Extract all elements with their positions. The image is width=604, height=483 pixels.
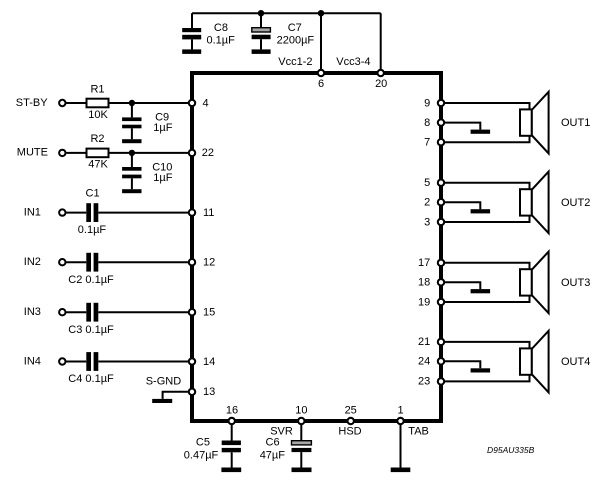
capacitor C5 0.47uF xyxy=(184,437,241,468)
pin 20 xyxy=(378,70,384,76)
wire pin 3 to speaker OUT2 xyxy=(441,216,530,222)
svg-text:4: 4 xyxy=(203,97,209,109)
ground C9 xyxy=(122,139,141,143)
svg-text:16: 16 xyxy=(226,405,238,417)
pin 2 xyxy=(438,199,444,205)
capacitor C7 2200uF xyxy=(252,13,315,49)
svg-text:Vcc3-4: Vcc3-4 xyxy=(336,56,370,68)
ground C8 xyxy=(182,49,201,54)
resistor R2 47K xyxy=(87,133,109,171)
svg-text:OUT1: OUT1 xyxy=(561,117,590,129)
wire C3 to pin 15 xyxy=(98,311,192,313)
wire pin 9 to speaker OUT1 xyxy=(441,103,530,109)
pin 15 xyxy=(189,309,195,315)
wire IN2 input xyxy=(66,261,87,263)
svg-text:C8: C8 xyxy=(214,22,228,34)
svg-text:IN4: IN4 xyxy=(24,355,41,367)
pin 4 xyxy=(189,100,195,106)
pin 13 xyxy=(189,389,195,395)
capacitor C9 1uF xyxy=(122,103,173,139)
capacitor C2 0.1uF xyxy=(68,253,114,286)
pin 22 xyxy=(189,150,195,156)
svg-text:TAB: TAB xyxy=(408,426,429,438)
ground S-GND xyxy=(152,399,172,403)
svg-text:ST-BY: ST-BY xyxy=(16,97,48,109)
wire pin 10 to C6 xyxy=(300,421,302,441)
svg-text:D95AU335B: D95AU335B xyxy=(487,445,535,455)
svg-text:0.47µF: 0.47µF xyxy=(184,450,219,462)
svg-text:47µF: 47µF xyxy=(260,450,286,462)
capacitor C6 47uF xyxy=(260,437,312,468)
svg-text:1: 1 xyxy=(397,405,403,417)
wire R1 to pin 4 xyxy=(109,102,193,104)
svg-text:C6: C6 xyxy=(266,437,280,449)
svg-text:IN3: IN3 xyxy=(24,306,41,318)
wire pin 20 branch xyxy=(380,13,382,73)
capacitor C10 1uF xyxy=(122,153,173,189)
pin 3 xyxy=(438,219,444,225)
ground C6 xyxy=(292,468,312,473)
terminal circle IN4 xyxy=(59,358,65,364)
pin 8 xyxy=(438,119,444,125)
terminal circle IN2 xyxy=(59,259,65,265)
pin 17 xyxy=(438,260,444,266)
wire R2 to pin 22 xyxy=(109,152,193,154)
pin 6 xyxy=(318,70,324,76)
wire pin 1 TAB to ground xyxy=(400,421,402,468)
svg-text:OUT2: OUT2 xyxy=(561,197,590,209)
svg-text:S-GND: S-GND xyxy=(146,375,182,387)
IC U1 body xyxy=(192,73,441,421)
svg-text:15: 15 xyxy=(203,307,215,319)
ground C10 xyxy=(122,189,141,193)
svg-text:10: 10 xyxy=(295,405,307,417)
svg-text:3: 3 xyxy=(424,216,430,228)
svg-text:12: 12 xyxy=(203,257,215,269)
node junction rail/C7 xyxy=(258,10,264,16)
svg-text:IN1: IN1 xyxy=(24,207,41,219)
wire pin 21 to speaker OUT4 xyxy=(441,342,530,349)
svg-text:18: 18 xyxy=(418,277,430,289)
svg-text:25: 25 xyxy=(345,405,357,417)
wire IN1 input xyxy=(66,212,87,214)
capacitor C3 0.1uF xyxy=(68,303,114,336)
svg-text:19: 19 xyxy=(418,296,430,308)
svg-text:OUT3: OUT3 xyxy=(561,277,590,289)
ground OUT4 xyxy=(471,368,491,372)
wire IN4 input xyxy=(66,361,87,363)
svg-text:6: 6 xyxy=(318,78,324,90)
svg-text:9: 9 xyxy=(424,97,430,109)
pin 7 xyxy=(438,139,444,145)
ground OUT1 xyxy=(471,130,491,134)
ground OUT3 xyxy=(471,289,491,293)
wire IN3 input xyxy=(66,311,87,313)
terminal circle IN1 xyxy=(59,209,65,215)
svg-text:24: 24 xyxy=(418,356,430,368)
pin 14 xyxy=(189,358,195,364)
svg-text:21: 21 xyxy=(418,336,430,348)
node junction R2/C10 xyxy=(129,150,135,156)
svg-text:14: 14 xyxy=(203,356,215,368)
svg-text:20: 20 xyxy=(375,78,387,90)
node junction R1/C9 xyxy=(129,100,135,106)
wire top supply rail xyxy=(192,12,381,14)
svg-text:23: 23 xyxy=(418,376,430,388)
ground C7 xyxy=(252,49,271,54)
capacitor C8 0.1uF xyxy=(182,13,235,49)
wire pin 5 to speaker OUT2 xyxy=(441,183,530,190)
svg-text:C7: C7 xyxy=(288,22,302,34)
svg-text:17: 17 xyxy=(418,257,430,269)
node junction rail/pin6 xyxy=(318,10,324,16)
speaker OUT3 xyxy=(520,252,590,314)
wire pin 19 to speaker OUT3 xyxy=(441,296,530,302)
wire pin 23 to speaker OUT4 xyxy=(441,375,530,382)
wire pin 18 to ground xyxy=(441,282,480,289)
svg-text:C2 0.1µF: C2 0.1µF xyxy=(68,274,114,286)
svg-text:11: 11 xyxy=(203,207,214,219)
svg-text:47K: 47K xyxy=(88,159,108,171)
wire C2 to pin 12 xyxy=(98,261,192,263)
wire pin 7 to speaker OUT1 xyxy=(441,136,530,142)
svg-text:HSD: HSD xyxy=(338,426,361,438)
svg-text:C4 0.1µF: C4 0.1µF xyxy=(68,373,114,385)
wire pin 8 to ground xyxy=(441,123,480,130)
pin 18 xyxy=(438,279,444,285)
wire pin 24 to ground xyxy=(441,361,480,368)
svg-text:C1: C1 xyxy=(86,188,100,200)
ground TAB xyxy=(391,468,411,473)
resistor R1 10K xyxy=(87,83,109,121)
svg-text:22: 22 xyxy=(202,147,214,159)
pin 10 xyxy=(298,418,304,424)
svg-text:13: 13 xyxy=(203,386,215,398)
svg-text:2: 2 xyxy=(424,197,430,209)
wire C1 to pin 11 xyxy=(98,212,192,214)
ground C5 xyxy=(221,468,241,473)
wire pin 17 to speaker OUT3 xyxy=(441,263,530,269)
svg-text:8: 8 xyxy=(424,117,430,129)
terminal circle MUTE xyxy=(59,150,65,156)
svg-text:0.1µF: 0.1µF xyxy=(78,224,107,236)
svg-text:R1: R1 xyxy=(90,83,104,95)
pin 25 xyxy=(348,418,354,424)
speaker OUT1 xyxy=(520,92,590,154)
pin 9 xyxy=(438,100,444,106)
capacitor C4 0.1uF xyxy=(68,352,114,385)
speaker OUT4 xyxy=(520,331,590,393)
svg-text:7: 7 xyxy=(424,137,430,149)
svg-text:1µF: 1µF xyxy=(153,122,172,134)
pin 23 xyxy=(438,378,444,384)
wire C4 to pin 14 xyxy=(98,361,192,363)
pin 1 xyxy=(397,418,403,424)
wire pin 16 to C5 xyxy=(231,421,233,441)
svg-text:0.1µF: 0.1µF xyxy=(207,34,236,46)
svg-text:1µF: 1µF xyxy=(153,172,172,184)
svg-text:IN2: IN2 xyxy=(24,256,41,268)
capacitor C1 0.1uF xyxy=(78,188,107,237)
pin 5 xyxy=(438,180,444,186)
svg-text:C5: C5 xyxy=(196,437,210,449)
svg-text:R2: R2 xyxy=(90,133,104,145)
wire ST-BY input xyxy=(66,102,87,104)
terminal circle ST-BY xyxy=(59,100,65,106)
svg-text:2200µF: 2200µF xyxy=(277,34,315,46)
wire pin 13 to ground xyxy=(163,392,192,399)
pin 19 xyxy=(438,299,444,305)
wire MUTE input xyxy=(66,152,87,154)
wire pin 6 branch xyxy=(320,13,322,73)
pin 21 xyxy=(438,339,444,345)
svg-text:C3 0.1µF: C3 0.1µF xyxy=(68,324,114,336)
svg-text:MUTE: MUTE xyxy=(17,147,48,159)
svg-text:OUT4: OUT4 xyxy=(561,356,590,368)
pin 24 xyxy=(438,358,444,364)
svg-text:10K: 10K xyxy=(88,109,108,121)
pin 11 xyxy=(189,209,195,215)
speaker OUT2 xyxy=(520,172,590,234)
pin 12 xyxy=(189,259,195,265)
wire pin 2 to ground xyxy=(441,202,480,209)
svg-text:Vcc1-2: Vcc1-2 xyxy=(278,56,312,68)
terminal circle IN3 xyxy=(59,309,65,315)
svg-text:5: 5 xyxy=(424,177,430,189)
ground OUT2 xyxy=(471,209,491,213)
pin 16 xyxy=(229,418,235,424)
